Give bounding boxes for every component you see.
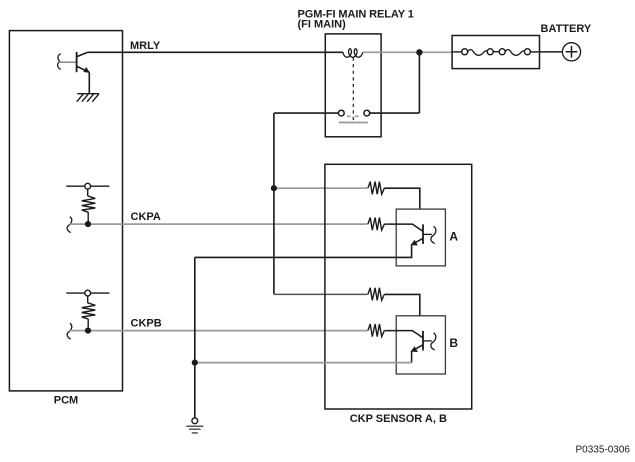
QA emitter arrowhead bbox=[411, 240, 418, 246]
Q1 emitter arrowhead bbox=[83, 67, 90, 73]
svg-text:A: A bbox=[449, 229, 458, 243]
transistor Q1 base squiggle (break symbol) bbox=[58, 54, 61, 70]
junction dot battery feed bbox=[416, 49, 422, 55]
wire: fuse box left lead bbox=[452, 51, 462, 53]
svg-text:CKPA: CKPA bbox=[131, 211, 161, 223]
transistor QB bbox=[422, 331, 424, 351]
wire: QA emitter elbow bbox=[195, 245, 412, 258]
resistor R2 (CKPA series, horizontal zigzag) bbox=[368, 218, 384, 231]
QB base lead bbox=[423, 340, 432, 342]
wire: resistor RA to CKPA node bbox=[87, 212, 89, 224]
wire: relay contact right lead bbox=[370, 112, 420, 114]
CKPB break squiggle bbox=[67, 323, 72, 339]
terminal circle B bbox=[85, 290, 91, 296]
wire: QB emitter return (gray) bbox=[195, 362, 412, 364]
fuse F2 bbox=[499, 49, 505, 55]
QB emitter bbox=[412, 345, 423, 351]
wire: R3 to sensor B block bbox=[384, 294, 420, 315]
svg-text:MRLY: MRLY bbox=[130, 40, 161, 52]
wire: MRLY line (Q1 collector to relay coil) bbox=[88, 51, 343, 53]
wire: resistor RB to CKPB node bbox=[87, 319, 89, 331]
ground (sensor return, circle style) bbox=[192, 418, 198, 424]
relay coil L1 bbox=[343, 49, 363, 57]
QA emitter bbox=[412, 238, 423, 244]
pull-up rail B (internal supply line with terminal circle) bbox=[66, 292, 109, 294]
resistor RA (CKPA pull-up, vertical zigzag) bbox=[82, 196, 96, 212]
pull-up rail A (internal supply line with terminal circle) bbox=[66, 185, 109, 187]
wire: Q1 emitter to ground bbox=[88, 72, 90, 93]
transistor Q1 (PCM MRLY driver, NPN) bbox=[77, 52, 90, 72]
QA base lead bbox=[423, 233, 432, 235]
resistor R3 (sensor B supply, horizontal zigzag) bbox=[368, 288, 384, 301]
PCM box bbox=[9, 31, 122, 391]
relay box PGM-FI MAIN RELAY 1 bbox=[325, 34, 381, 137]
junction dot supply to sensor A bbox=[271, 185, 277, 191]
relay switch contact circles bbox=[338, 110, 344, 116]
junction dot CKPA node bbox=[85, 221, 91, 227]
QB emitter arrowhead bbox=[411, 346, 418, 352]
wire: between fuses bbox=[493, 51, 499, 53]
wire: CKPA line (PCM to CKP sensor A) bbox=[70, 223, 368, 225]
svg-text:CKPB: CKPB bbox=[131, 318, 162, 330]
QB base break squiggle bbox=[431, 333, 436, 350]
svg-text:CKP SENSOR A, B: CKP SENSOR A, B bbox=[350, 413, 447, 425]
battery positive terminal bbox=[562, 43, 580, 61]
wire: battery junction down to relay contact bbox=[418, 52, 420, 113]
resistor RB (CKPB pull-up, vertical zigzag) bbox=[82, 303, 96, 319]
wire: relay contact left lead to supply drop bbox=[274, 112, 339, 114]
wire: circle to resistor RB bbox=[87, 296, 89, 303]
wire: Q1 base lead bbox=[59, 61, 76, 63]
ground (PCM driver emitter) bbox=[77, 94, 100, 102]
relay switch base plate (gray) bbox=[339, 122, 368, 124]
wire: supply drop vertical bbox=[273, 113, 275, 294]
wire: sensor ground drop bbox=[194, 257, 196, 418]
terminal circle A bbox=[85, 183, 91, 189]
wire: R1 to sensor A block bbox=[384, 188, 420, 209]
CKP sensor box bbox=[325, 164, 472, 409]
svg-text:BATTERY: BATTERY bbox=[541, 23, 592, 35]
QA base break squiggle bbox=[431, 226, 436, 243]
wire: fuse box right lead bbox=[530, 51, 539, 53]
sensor B inner block bbox=[396, 316, 445, 374]
relay actuator dashed link bbox=[352, 58, 354, 123]
sensor A inner block bbox=[396, 209, 445, 266]
resistor R4 (CKPB series, horizontal zigzag) bbox=[368, 324, 384, 337]
fuse F1 bbox=[462, 49, 468, 55]
relay switch movable blade (gray dashed) bbox=[347, 115, 360, 117]
transistor QA bbox=[422, 224, 424, 244]
junction dot sensor ground bbox=[192, 360, 198, 366]
svg-text:B: B bbox=[449, 336, 458, 350]
wire: R4 to transistor QB collector bbox=[384, 331, 423, 338]
wire: supply feed to sensor A resistor (gray) bbox=[274, 187, 368, 189]
resistor R1 (sensor A supply, horizontal zigzag) bbox=[368, 182, 384, 195]
wire: circle to resistor RA bbox=[87, 189, 89, 196]
wire: coil to battery junction (gray feed) bbox=[363, 51, 453, 53]
svg-text:PCM: PCM bbox=[54, 395, 78, 407]
CKPA break squiggle bbox=[67, 217, 72, 233]
wire: supply feed to sensor B resistor bbox=[274, 293, 368, 295]
junction dot CKPB node bbox=[85, 328, 91, 334]
wire: fuse box to battery bbox=[540, 51, 563, 53]
fuse box bbox=[452, 36, 539, 69]
svg-text:(FI MAIN): (FI MAIN) bbox=[298, 19, 347, 31]
wire: CKPB line (PCM to CKP sensor B) bbox=[70, 330, 368, 332]
wire: QB emitter elbow bbox=[411, 351, 413, 363]
svg-text:P0335-0306: P0335-0306 bbox=[576, 445, 631, 456]
wire: R2 to transistor QA collector bbox=[384, 224, 423, 231]
